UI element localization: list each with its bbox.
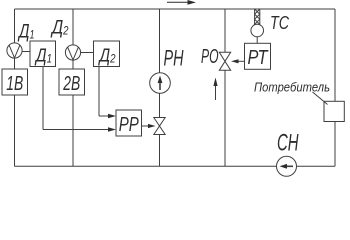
svg-text:РО: РО [201, 46, 219, 68]
leader line to consumer box [313, 92, 328, 105]
svg-text:ТС: ТС [270, 12, 289, 33]
svg-text:РН: РН [164, 46, 184, 71]
wire D1 box stem down [42, 67, 44, 130]
wire D1 circle to D1 box [22, 51, 30, 53]
svg-text:СН: СН [277, 130, 299, 157]
gauge circle PH with up arrow [150, 73, 171, 94]
valve PH (below gauge) [154, 118, 165, 135]
wire D2 circle to D2 box [81, 52, 94, 54]
arrow into valve PO [231, 59, 239, 63]
box D2 [94, 41, 120, 67]
flow arrow up near PO [213, 78, 217, 101]
wire D1 to PP lower input [43, 129, 109, 131]
sensor circle D2 [65, 45, 80, 60]
wire PT to valve PO [237, 60, 245, 62]
box 1B [2, 69, 28, 95]
consumer box [324, 101, 344, 121]
wire D2 to PP upper input [99, 115, 109, 117]
arrow into PP lower [108, 127, 116, 131]
wire PO column [224, 9, 226, 166]
valve PO [219, 52, 230, 70]
wire left vertical [14, 9, 16, 166]
sensor TC circle [251, 24, 264, 37]
wire PP output to valve [142, 125, 151, 127]
sensor circle D1 [7, 43, 22, 58]
wire TC circle to PT box [256, 37, 258, 44]
arrow into valve PH [148, 124, 156, 128]
box 2B [59, 69, 85, 95]
svg-text:РТ: РТ [248, 47, 269, 69]
svg-text:1В: 1В [6, 73, 23, 95]
flow arrow top [167, 0, 196, 5]
wire bottom bus [15, 165, 336, 167]
regulator box PT [245, 43, 271, 69]
arrow into PP upper [108, 114, 116, 118]
wire right vertical [334, 9, 336, 166]
svg-text:Д1: Д1 [17, 22, 34, 43]
wire D2 box stem down [98, 67, 100, 117]
svg-text:РР: РР [119, 114, 139, 136]
box D1 [30, 41, 56, 67]
svg-text:Д2: Д2 [50, 18, 69, 39]
sensor TC hatched stem [255, 9, 260, 24]
wire top bus [15, 8, 336, 10]
pump CH circle with left arrow [277, 156, 297, 176]
wire D2 drop from top bus [72, 9, 74, 166]
regulator box PP [116, 110, 142, 136]
svg-text:2В: 2В [63, 73, 81, 95]
svg-text:Потребитель: Потребитель [254, 80, 330, 95]
wire PH column [159, 9, 161, 166]
